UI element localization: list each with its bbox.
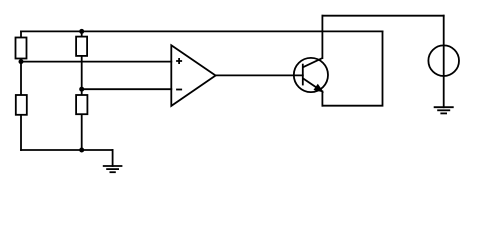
wire R2 to R4 bbox=[81, 56, 83, 95]
node junction top rail bbox=[79, 29, 84, 34]
resistor R3 bbox=[16, 95, 27, 115]
wire R2 top stub bbox=[81, 31, 83, 36]
wire current source vertical bbox=[443, 16, 445, 108]
node junction inverting bbox=[79, 87, 84, 92]
current source I1 bbox=[428, 45, 459, 76]
wire R3 to bottom rail bbox=[20, 115, 22, 150]
wire collector up bbox=[321, 16, 323, 58]
wire top rail bbox=[21, 30, 383, 32]
resistor R2 bbox=[76, 37, 87, 56]
ground left bbox=[103, 166, 123, 172]
wire top run to current source bbox=[322, 15, 443, 17]
wire op-amp output to base bbox=[216, 74, 303, 76]
transistor Q1 bbox=[294, 58, 328, 92]
op-amp U1 bbox=[171, 45, 215, 106]
wire emitter to feedback bbox=[321, 92, 323, 106]
ground right bbox=[434, 107, 454, 113]
node junction bottom rail bbox=[79, 148, 84, 153]
resistor R4 bbox=[76, 95, 87, 114]
wire R4 to bottom rail bbox=[81, 114, 83, 150]
wire R1 to R3 bbox=[20, 59, 22, 96]
wire ground stem left bbox=[112, 150, 114, 166]
wire noninverting input bbox=[21, 61, 171, 63]
resistor R1 bbox=[16, 38, 27, 59]
wire R1 top stub bbox=[20, 31, 22, 37]
wire bottom rail bbox=[21, 149, 113, 151]
wire feedback right side bbox=[322, 31, 382, 105]
node junction noninverting bbox=[19, 59, 24, 64]
wire inverting input bbox=[82, 88, 172, 90]
